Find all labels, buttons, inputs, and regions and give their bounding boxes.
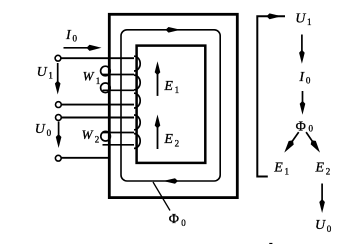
winding W1: left loop circles: [101, 66, 111, 76]
svg-text:0: 0: [47, 128, 52, 138]
svg-text:0: 0: [181, 218, 186, 228]
svg-text:W: W: [82, 127, 94, 142]
svg-text:2: 2: [326, 167, 331, 177]
svg-text:1: 1: [48, 71, 53, 81]
winding W1: right side arcs: [134, 56, 140, 71]
diagonal arrow Φ0 to E2: [306, 132, 313, 143]
svg-text:1: 1: [175, 85, 180, 95]
svg-text:1: 1: [96, 76, 101, 86]
core window (inner rectangle): [137, 46, 206, 163]
terminal 2: [56, 102, 62, 108]
svg-text:U: U: [315, 218, 326, 233]
arrow I0 (pointing right): [64, 47, 92, 49]
svg-text:0: 0: [73, 34, 78, 44]
winding W2: right side arcs: [134, 115, 140, 130]
svg-text:U: U: [35, 122, 46, 137]
feedback bracket (E1 back to U1): [257, 16, 285, 176]
svg-text:E: E: [163, 79, 173, 94]
wire terminal3 to winding W2: [62, 117, 134, 119]
wire terminal4 to winding W2: [62, 157, 111, 159]
svg-text:0: 0: [309, 124, 314, 134]
svg-text:0: 0: [306, 76, 311, 86]
svg-text:0: 0: [327, 224, 332, 234]
stray mark at bottom edge: [269, 243, 272, 244]
diagonal arrow Φ0 to E1: [291, 132, 299, 143]
svg-text:2: 2: [95, 135, 100, 145]
arrow into U1 (pointing right): [267, 13, 282, 19]
svg-text:U: U: [37, 65, 48, 80]
transformer core (outer rectangle): [109, 14, 237, 197]
flux arrow (top, pointing right): [166, 27, 181, 33]
winding W1: crossing turn lines: [103, 74, 135, 76]
svg-text:Φ: Φ: [296, 120, 306, 135]
arrow U0 (pointing down): [58, 122, 60, 139]
svg-text:1: 1: [285, 167, 290, 177]
arrow U1 to I0 (down): [301, 35, 303, 55]
arrow E1 (pointing up): [157, 72, 159, 96]
terminal 4: [55, 155, 61, 161]
winding W2: left loop circle: [101, 131, 111, 141]
flux arrow (bottom, pointing left): [163, 178, 178, 184]
svg-text:U: U: [295, 11, 306, 26]
arrow E2 to U0 (down): [321, 184, 323, 204]
svg-text:1: 1: [307, 17, 312, 27]
wire terminal2 to winding W1: [62, 104, 134, 106]
leader line to Φ0 label: [153, 182, 170, 211]
svg-text:E: E: [273, 161, 283, 176]
terminal 3: [56, 115, 62, 121]
svg-text:2: 2: [175, 138, 180, 148]
arrow I0 to Φ0 (down): [302, 91, 304, 105]
svg-text:E: E: [315, 161, 325, 176]
arrow U1 (pointing down): [57, 63, 59, 85]
winding W2: crossing turn lines: [103, 132, 135, 134]
svg-text:Φ: Φ: [169, 212, 179, 227]
svg-text:W: W: [83, 68, 95, 83]
arrow E2 (pointing up): [157, 125, 159, 149]
svg-text:E: E: [163, 132, 173, 147]
flux path loop Φ0 (inside core): [121, 30, 220, 181]
terminal 1: [55, 55, 61, 61]
wire terminal1 to winding W1: [61, 57, 134, 59]
